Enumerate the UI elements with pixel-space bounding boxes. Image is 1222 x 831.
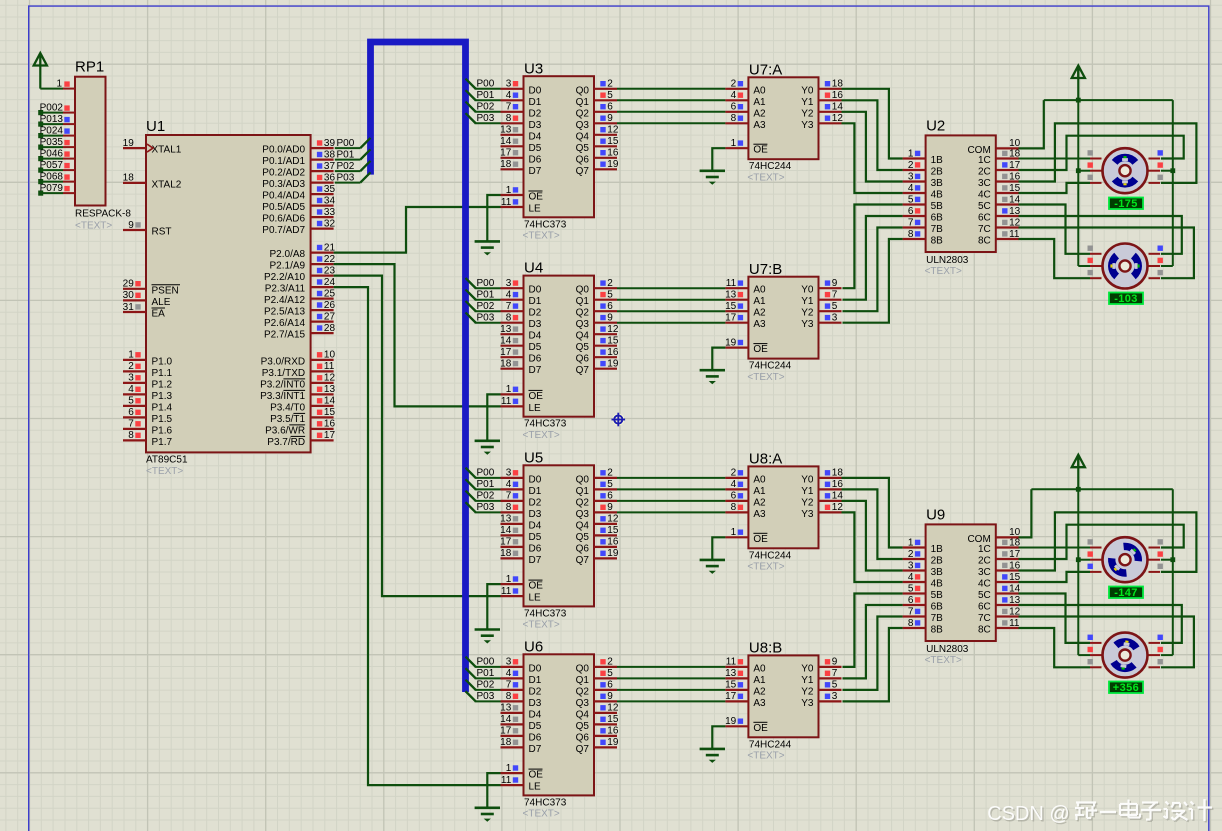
U6 pin 1 (OE) xyxy=(501,763,544,781)
wire U8:A OE to ground xyxy=(712,537,725,560)
svg-text:11: 11 xyxy=(501,396,512,407)
svg-text:Y0: Y0 xyxy=(801,663,814,674)
U7:A pin 8 (A3) xyxy=(725,113,766,131)
svg-text:9: 9 xyxy=(832,657,838,668)
wire U7:A Y2 to U2 3B xyxy=(842,112,903,182)
wire U5 OE to ground xyxy=(487,584,500,629)
U5 pin 17 (D6) xyxy=(500,537,542,555)
U3 pin 4 (D1) xyxy=(501,90,542,108)
svg-text:3: 3 xyxy=(832,691,838,702)
svg-text:P1.4: P1.4 xyxy=(152,402,173,413)
U2 pin 13 (6C) xyxy=(978,206,1021,224)
svg-text:D6: D6 xyxy=(529,732,542,743)
svg-text:74HC244: 74HC244 xyxy=(749,739,792,750)
svg-text:15: 15 xyxy=(607,525,619,536)
svg-text:8C: 8C xyxy=(978,625,991,636)
wire bus entry net P02 to U6 D2 xyxy=(466,680,501,690)
svg-text:2B: 2B xyxy=(931,167,944,178)
U2 pin 16 (3C) xyxy=(978,171,1021,189)
svg-text:15: 15 xyxy=(607,336,619,347)
svg-text:36: 36 xyxy=(324,172,336,183)
svg-text:Y1: Y1 xyxy=(801,296,814,307)
svg-text:17: 17 xyxy=(725,313,737,324)
svg-text:A2: A2 xyxy=(753,497,766,508)
top section: wire VCC rail xyxy=(1044,99,1173,101)
bottom section: wire to motor2 right common xyxy=(1161,654,1173,656)
svg-text:4: 4 xyxy=(731,479,737,490)
svg-text:38: 38 xyxy=(324,149,336,160)
top section: wire to motor1 left common xyxy=(1078,170,1090,172)
svg-text:8: 8 xyxy=(908,229,914,240)
top section: wire to motor2 left common xyxy=(1078,265,1090,267)
svg-text:-103: -103 xyxy=(1114,293,1138,305)
U1 pin 35 (P0.4/AD4) xyxy=(262,184,335,202)
svg-text:7C: 7C xyxy=(978,224,991,235)
svg-text:OE: OE xyxy=(753,534,768,545)
svg-text:P1.2: P1.2 xyxy=(152,379,173,390)
wire U7:A OE to ground xyxy=(712,148,725,171)
U4 pin 12 (Q4) xyxy=(576,324,619,342)
U1 pin 24 (P2.3/A11) xyxy=(265,277,336,295)
svg-text:11: 11 xyxy=(726,657,737,668)
U2 pin 6 (6B) xyxy=(903,206,944,224)
wire U1 P2.2 to U5 LE xyxy=(334,276,501,596)
display motor M3 position -147 xyxy=(1109,587,1143,600)
svg-text:P03: P03 xyxy=(337,172,355,183)
svg-text:3: 3 xyxy=(832,313,838,324)
bus entry stub P02 at U3 xyxy=(466,102,476,112)
wire U7:A Y0 to U2 1B xyxy=(842,89,903,159)
svg-text:7: 7 xyxy=(908,606,914,617)
svg-text:7: 7 xyxy=(506,102,512,113)
U3 pin 16 (Q6) xyxy=(576,148,619,166)
U7:A pin 16 (Y1) xyxy=(801,90,843,108)
U2 pin 1 (1B) xyxy=(903,148,944,166)
U2 pin 15 (4C) xyxy=(978,183,1021,201)
svg-text:18: 18 xyxy=(500,359,512,370)
U4 pin 5 (Q1) xyxy=(576,290,617,308)
U5 pin 5 (Q1) xyxy=(576,479,617,497)
bottom section: wire +V mid vertical xyxy=(1077,489,1079,655)
U1 pin 5 (P1.4) xyxy=(123,396,173,414)
svg-text:U9: U9 xyxy=(926,507,945,524)
bus entry stub P01 at U4 xyxy=(466,290,476,300)
wire U1 P0.1 to bus (net P01) xyxy=(335,149,371,159)
svg-text:5: 5 xyxy=(607,479,613,490)
svg-text:3: 3 xyxy=(506,79,512,90)
svg-text:U3: U3 xyxy=(524,60,543,77)
svg-text:12: 12 xyxy=(607,703,619,714)
bottom section: wire rail to COM xyxy=(1019,489,1032,537)
svg-text:4B: 4B xyxy=(931,190,944,201)
U4 pin 4 (D1) xyxy=(501,290,542,308)
svg-text:Q7: Q7 xyxy=(576,166,590,177)
wire bus entry net P03 to U4 D3 xyxy=(466,313,501,323)
svg-text:14: 14 xyxy=(500,336,512,347)
top section: wire to motor1 right common xyxy=(1161,170,1173,172)
svg-text:6C: 6C xyxy=(978,213,991,224)
svg-text:P035: P035 xyxy=(40,137,64,148)
svg-text:D3: D3 xyxy=(529,120,542,131)
stepper motor M1 xyxy=(1088,148,1163,193)
svg-text:4: 4 xyxy=(908,183,914,194)
svg-text:Q7: Q7 xyxy=(576,744,590,755)
svg-text:XTAL2: XTAL2 xyxy=(152,179,182,190)
U9 pin 7 (7B) xyxy=(903,606,944,624)
svg-text:P01: P01 xyxy=(477,290,495,301)
U7:B pin 9 (Y0) xyxy=(801,278,841,296)
svg-text:P1.6: P1.6 xyxy=(152,425,173,436)
svg-text:9: 9 xyxy=(128,220,134,231)
svg-text:17: 17 xyxy=(500,347,512,358)
svg-text:5: 5 xyxy=(832,301,838,312)
svg-text:10: 10 xyxy=(324,350,336,361)
svg-text:OE: OE xyxy=(529,391,544,402)
stepper motor M4 xyxy=(1088,633,1163,678)
U7:A pin 2 (A0) xyxy=(725,79,766,97)
U8:A pin 8 (A3) xyxy=(725,502,766,520)
bottom section: wire VCC rail xyxy=(1031,488,1172,490)
U8:B pin 19 (OE) xyxy=(725,716,768,734)
svg-text:Q0: Q0 xyxy=(576,85,590,96)
U1 pin 14 (P3.4/T0) xyxy=(270,396,335,414)
node P057 (RP1 pin 7) xyxy=(38,160,75,173)
top section: junction motor1 right common xyxy=(1170,168,1175,173)
svg-text:RESPACK-8: RESPACK-8 xyxy=(75,209,131,220)
U8:B pin 9 (Y0) xyxy=(801,657,841,675)
U1 pin 25 (P2.4/A12) xyxy=(264,288,336,306)
svg-text:1: 1 xyxy=(506,185,512,196)
bottom section: wire 7C to motor2 coil C xyxy=(1019,617,1194,668)
svg-text:2: 2 xyxy=(731,79,737,90)
U9 pin 18 (1C) xyxy=(978,537,1021,555)
svg-text:PSEN: PSEN xyxy=(152,285,179,296)
svg-text:5: 5 xyxy=(832,680,838,691)
svg-text:ALE: ALE xyxy=(152,297,171,308)
resistor pack RP1 RESPACK-8 xyxy=(75,59,131,232)
svg-text:2B: 2B xyxy=(931,556,944,567)
bottom section: wire 1C to motor1 coil A xyxy=(1019,547,1091,549)
svg-text:AT89C51: AT89C51 xyxy=(146,455,188,466)
svg-text:Y0: Y0 xyxy=(801,474,814,485)
wire bus entry net P01 to U4 D1 xyxy=(466,290,501,300)
svg-text:4: 4 xyxy=(731,90,737,101)
svg-text:P2.1/A9: P2.1/A9 xyxy=(270,261,306,272)
svg-text:6: 6 xyxy=(607,491,613,502)
svg-text:A3: A3 xyxy=(753,509,766,520)
wire U8:A Y3 to U9 4B xyxy=(842,512,903,582)
svg-text:Q6: Q6 xyxy=(576,354,590,365)
wire U5 Q3 to U8:A A3 xyxy=(617,511,725,513)
svg-text:OE: OE xyxy=(529,581,544,592)
U6 pin 13 (D4) xyxy=(500,703,542,721)
svg-text:6: 6 xyxy=(607,301,613,312)
svg-text:P1.0: P1.0 xyxy=(152,356,173,367)
U4 pin 11 (LE) xyxy=(501,396,542,414)
svg-text:8C: 8C xyxy=(978,236,991,247)
svg-text:Y1: Y1 xyxy=(801,486,814,497)
svg-text:P2.4/A12: P2.4/A12 xyxy=(264,295,306,306)
svg-text:A2: A2 xyxy=(753,686,766,697)
U5 pin 6 (Q2) xyxy=(576,491,617,509)
wire bus entry net P01 to U3 D1 xyxy=(466,90,501,100)
svg-text:P0.7/AD7: P0.7/AD7 xyxy=(262,225,305,236)
bus entry stub P00 at U4 xyxy=(466,278,476,288)
svg-text:Q0: Q0 xyxy=(576,285,590,296)
svg-text:A0: A0 xyxy=(753,474,766,485)
svg-text:Q6: Q6 xyxy=(576,543,590,554)
U6 pin 17 (D6) xyxy=(500,726,542,744)
wire U7:B Y0 to U2 5B xyxy=(843,205,903,289)
latch U6 74HC373 xyxy=(523,638,595,819)
U3 pin 11 (LE) xyxy=(501,197,542,215)
svg-text:13: 13 xyxy=(500,703,512,714)
svg-text:P0.2/AD2: P0.2/AD2 xyxy=(262,168,305,179)
svg-text:<TEXT>: <TEXT> xyxy=(747,372,784,383)
U4 pin 19 (Q7) xyxy=(576,359,619,377)
bottom section: wire to motor1 right common xyxy=(1161,559,1173,561)
U1 pin 18 (XTAL2) xyxy=(123,173,182,191)
svg-text:13: 13 xyxy=(500,125,512,136)
svg-text:25: 25 xyxy=(324,288,336,299)
svg-text:17: 17 xyxy=(500,726,512,737)
U4 pin 16 (Q6) xyxy=(576,347,619,365)
stepper motor M3 xyxy=(1088,537,1163,582)
svg-text:Y1: Y1 xyxy=(801,97,814,108)
svg-text:5: 5 xyxy=(908,194,914,205)
svg-text:<TEXT>: <TEXT> xyxy=(75,220,112,231)
svg-text:1: 1 xyxy=(128,350,134,361)
bottom section: junction motor1 left common xyxy=(1076,557,1081,562)
svg-text:74HC373: 74HC373 xyxy=(524,797,567,808)
svg-text:15: 15 xyxy=(607,714,619,725)
svg-text:2C: 2C xyxy=(978,167,991,178)
U1 pin 36 (P0.3/AD3) xyxy=(262,172,335,190)
svg-text:Q7: Q7 xyxy=(576,365,590,376)
svg-text:P3.5/T1: P3.5/T1 xyxy=(270,414,305,425)
svg-text:8: 8 xyxy=(506,313,512,324)
buffer U7:B 74HC244 xyxy=(747,261,818,383)
svg-text:P013: P013 xyxy=(40,114,64,125)
ground under U7:B xyxy=(700,370,725,384)
svg-text:8: 8 xyxy=(731,502,737,513)
svg-text:3: 3 xyxy=(506,468,512,479)
svg-text:4: 4 xyxy=(128,384,134,395)
svg-text:P03: P03 xyxy=(477,691,495,702)
U1 pin 17 (P3.7/RD) xyxy=(267,430,335,448)
svg-text:A3: A3 xyxy=(753,319,766,330)
svg-text:2: 2 xyxy=(731,468,737,479)
svg-text:7: 7 xyxy=(128,419,134,430)
wire bus entry net P02 to U3 D2 xyxy=(466,102,501,112)
U5 pin 3 (D0) xyxy=(501,468,542,486)
svg-text:18: 18 xyxy=(123,173,135,184)
wire U4 Q2 to U7:B A2 xyxy=(617,310,725,312)
U5 pin 1 (OE) xyxy=(501,574,544,592)
U1 pin 28 (P2.7/A15) xyxy=(264,323,336,341)
svg-text:11: 11 xyxy=(1009,618,1020,629)
U6 pin 4 (D1) xyxy=(501,668,542,686)
U6 pin 14 (D5) xyxy=(500,714,542,732)
svg-text:Q1: Q1 xyxy=(576,296,590,307)
stepper motor M2 xyxy=(1088,244,1163,289)
U5 pin 7 (D2) xyxy=(501,491,542,509)
svg-text:Q4: Q4 xyxy=(576,131,590,142)
svg-text:33: 33 xyxy=(324,207,336,218)
svg-text:1B: 1B xyxy=(931,155,944,166)
node P035 (RP1 pin 5) xyxy=(38,137,75,150)
svg-text:3B: 3B xyxy=(931,178,944,189)
U1 pin 21 (P2.0/A8) xyxy=(270,242,336,260)
U1 pin 7 (P1.6) xyxy=(123,419,173,437)
svg-text:P00: P00 xyxy=(337,138,355,149)
svg-text:27: 27 xyxy=(324,311,336,322)
svg-text:1: 1 xyxy=(731,138,737,149)
U8:B pin 3 (Y3) xyxy=(801,691,841,709)
svg-text:P002: P002 xyxy=(40,102,64,113)
svg-text:1: 1 xyxy=(731,527,737,538)
node P024 (RP1 pin 4) xyxy=(38,125,75,138)
svg-text:2: 2 xyxy=(607,278,613,289)
svg-text:P0.6/AD6: P0.6/AD6 xyxy=(262,214,305,225)
U9 pin 10 (COM) xyxy=(967,527,1020,545)
U5 pin 8 (D3) xyxy=(501,502,542,520)
svg-text:Y2: Y2 xyxy=(801,497,814,508)
svg-text:30: 30 xyxy=(123,290,135,301)
svg-text:D2: D2 xyxy=(529,308,542,319)
U9 pin 3 (3B) xyxy=(903,560,944,578)
wire U6 OE to ground xyxy=(487,773,500,808)
svg-text:11: 11 xyxy=(501,197,512,208)
svg-text:1: 1 xyxy=(506,384,512,395)
U3 pin 9 (Q3) xyxy=(576,113,617,131)
svg-text:P079: P079 xyxy=(40,183,64,194)
U3 pin 19 (Q7) xyxy=(576,159,619,177)
wire bus entry net P00 to U5 D0 xyxy=(466,468,501,478)
svg-text:7: 7 xyxy=(832,668,838,679)
latch U3 74HC373 xyxy=(523,60,595,241)
svg-text:7: 7 xyxy=(908,217,914,228)
svg-text:9: 9 xyxy=(607,313,613,324)
svg-text:Q1: Q1 xyxy=(576,97,590,108)
U5 pin 4 (D1) xyxy=(501,479,542,497)
bus entry stub P03 at U1 xyxy=(360,172,370,182)
latch U5 74HC373 xyxy=(523,449,595,630)
svg-text:RP1: RP1 xyxy=(75,59,104,76)
wire U7:B Y2 to U2 7B xyxy=(843,228,903,312)
svg-text:D2: D2 xyxy=(529,497,542,508)
svg-text:19: 19 xyxy=(725,716,737,727)
svg-text:15: 15 xyxy=(725,680,737,691)
U9 pin 12 (7C) xyxy=(978,606,1021,624)
display motor M1 position -175 xyxy=(1109,198,1143,211)
wire U8:A Y1 to U9 2B xyxy=(842,489,903,559)
svg-text:Q7: Q7 xyxy=(576,555,590,566)
svg-text:LE: LE xyxy=(529,403,542,414)
svg-text:74HC244: 74HC244 xyxy=(749,550,792,561)
svg-text:6: 6 xyxy=(908,206,914,217)
U4 pin 6 (Q2) xyxy=(576,301,617,319)
U1 pin 37 (P0.2/AD2) xyxy=(262,161,335,179)
svg-text:13: 13 xyxy=(324,384,336,395)
U8:B pin 15 (A2) xyxy=(725,680,766,698)
svg-text:Y2: Y2 xyxy=(801,108,814,119)
top section: wire rail to COM xyxy=(1019,100,1044,148)
U6 pin 3 (D0) xyxy=(501,657,542,675)
U9 pin 16 (3C) xyxy=(978,560,1021,578)
svg-text:17: 17 xyxy=(324,430,336,441)
bottom section: wire to motor1 left common xyxy=(1078,559,1090,561)
svg-text:<TEXT>: <TEXT> xyxy=(747,173,784,184)
ground under U4 xyxy=(475,441,500,455)
svg-text:19: 19 xyxy=(123,138,135,149)
svg-text:OE: OE xyxy=(529,770,544,781)
svg-text:3: 3 xyxy=(908,171,914,182)
svg-text:P1.3: P1.3 xyxy=(152,391,173,402)
svg-text:P024: P024 xyxy=(40,125,64,136)
svg-text:6: 6 xyxy=(731,102,737,113)
svg-text:12: 12 xyxy=(607,324,619,335)
svg-text:D0: D0 xyxy=(529,285,542,296)
svg-text:Q5: Q5 xyxy=(576,532,590,543)
svg-text:D5: D5 xyxy=(529,532,542,543)
driver U9 ULN2803 xyxy=(925,507,996,667)
U1 pin 33 (P0.6/AD6) xyxy=(262,207,335,225)
U1 pin 32 (P0.7/AD7) xyxy=(262,218,335,236)
svg-text:U8:A: U8:A xyxy=(749,451,782,468)
U7:B pin 19 (OE) xyxy=(725,337,768,355)
svg-text:1C: 1C xyxy=(978,155,991,166)
svg-text:4C: 4C xyxy=(978,190,991,201)
svg-text:D3: D3 xyxy=(529,319,542,330)
svg-text:A0: A0 xyxy=(753,663,766,674)
wire U7:B OE to ground xyxy=(712,348,725,371)
svg-text:1: 1 xyxy=(908,537,914,548)
wire U3 Q0 to U7:A A0 xyxy=(617,88,725,90)
RP1 pin 1 xyxy=(56,78,75,89)
U3 pin 12 (Q4) xyxy=(576,125,619,143)
svg-text:P01: P01 xyxy=(477,668,495,679)
top section: wire 7C to motor2 coil C xyxy=(1019,228,1194,279)
svg-text:Q2: Q2 xyxy=(576,108,590,119)
display motor M2 position -103 xyxy=(1109,293,1143,306)
svg-text:12: 12 xyxy=(324,373,336,384)
U1 pin 4 (P1.3) xyxy=(123,384,173,402)
svg-text:D4: D4 xyxy=(529,131,542,142)
svg-text:8: 8 xyxy=(506,691,512,702)
svg-text:ULN2803: ULN2803 xyxy=(926,644,969,655)
svg-text:7B: 7B xyxy=(931,613,944,624)
U8:B pin 11 (A0) xyxy=(725,657,766,675)
U1 pin 34 (P0.5/AD5) xyxy=(262,195,335,213)
svg-text:Q4: Q4 xyxy=(576,331,590,342)
bus entry stub P00 at U3 xyxy=(466,79,476,89)
svg-text:8: 8 xyxy=(506,502,512,513)
U5 pin 14 (D5) xyxy=(500,525,542,543)
svg-text:D6: D6 xyxy=(529,154,542,165)
svg-text:<TEXT>: <TEXT> xyxy=(747,751,784,762)
wire bus entry net P02 to U4 D2 xyxy=(466,301,501,311)
svg-text:Q3: Q3 xyxy=(576,319,590,330)
svg-text:2: 2 xyxy=(607,79,613,90)
svg-text:17: 17 xyxy=(500,537,512,548)
svg-text:4: 4 xyxy=(506,668,512,679)
U5 pin 16 (Q6) xyxy=(576,537,619,555)
U7:A pin 6 (A2) xyxy=(725,102,766,120)
top section: wire 4C to motor1 coil D xyxy=(1019,183,1091,193)
svg-text:5: 5 xyxy=(128,396,134,407)
svg-text:Y1: Y1 xyxy=(801,675,814,686)
